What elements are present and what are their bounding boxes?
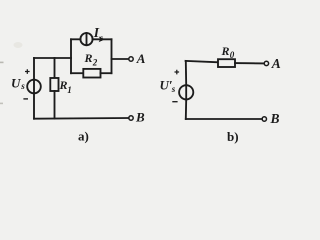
wire left stub of parallel block: [70, 39, 72, 73]
wire R2 branch right: [101, 72, 112, 74]
label - of U': [172, 101, 177, 103]
wire R1 branch bottom: [54, 91, 56, 119]
svg-text:A: A: [136, 51, 146, 66]
svg-text:s: s: [20, 81, 25, 91]
wire bottom rail a): [34, 117, 129, 120]
wire right stub of parallel block: [111, 39, 113, 73]
node B terminal a): [129, 116, 133, 120]
svg-text:U: U: [11, 76, 21, 91]
resistor R2: [83, 69, 100, 78]
node A terminal a): [129, 57, 133, 61]
wire U' branch bottom: [185, 99, 187, 119]
svg-text:R: R: [59, 78, 68, 92]
svg-text:1: 1: [67, 85, 72, 95]
wire top rail b): [186, 61, 218, 62]
wire top branch to current source: [71, 38, 81, 40]
svg-text:R: R: [84, 51, 93, 65]
label + of U': [175, 70, 180, 75]
current source Is: [80, 33, 92, 45]
faint mark left edge lower: [0, 103, 3, 105]
svg-text:s: s: [98, 34, 103, 44]
resistor R0: [218, 59, 235, 67]
wire to terminal A a): [112, 58, 129, 60]
node B terminal b): [262, 117, 266, 121]
wire top branch right with arrow: [93, 38, 112, 40]
resistor R1: [50, 78, 58, 91]
svg-text:A: A: [271, 56, 281, 71]
voltage source Us: [27, 80, 41, 94]
wire top rail a) from Us branch to left stub: [34, 57, 71, 59]
wire Us branch vertical bottom: [33, 93, 35, 118]
wire R1 branch top: [54, 58, 56, 78]
voltage source U': [179, 85, 193, 99]
svg-text:a): a): [78, 129, 89, 144]
label - of Us: [23, 98, 28, 100]
faint scan smudge top-left: [14, 42, 23, 48]
node A terminal b): [264, 61, 268, 65]
svg-text:b): b): [227, 129, 239, 144]
svg-text:B: B: [270, 111, 280, 126]
wire R0 to terminal A b): [235, 62, 264, 64]
arrow of Is: [99, 36, 105, 42]
svg-text:s: s: [171, 84, 176, 94]
wire U' branch top: [185, 61, 187, 85]
wire bottom rail b): [186, 118, 262, 120]
svg-text:R: R: [221, 44, 230, 58]
wire R2 branch left: [71, 72, 83, 74]
svg-text:2: 2: [92, 58, 98, 68]
faint mark left edge upper: [0, 62, 4, 64]
svg-text:B: B: [135, 110, 145, 125]
label + of Us: [25, 69, 30, 74]
svg-text:0: 0: [230, 50, 235, 60]
wire Us branch vertical top: [33, 58, 35, 80]
